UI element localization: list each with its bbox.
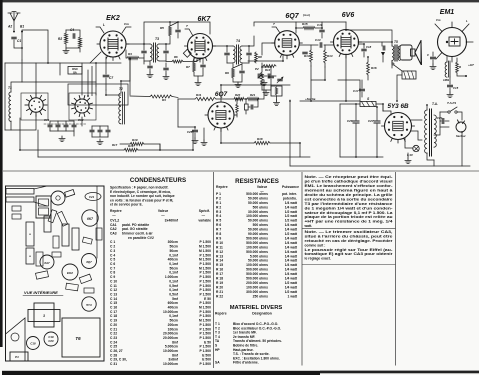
coil box T1 <box>26 222 34 246</box>
front-end frame wires <box>5 62 96 64</box>
svg-text:C17: C17 <box>353 89 359 93</box>
top scan edge <box>0 0 479 2</box>
capacitor C18 <box>362 49 366 51</box>
svg-text:500.000 ohms: 500.000 ohms <box>246 268 268 272</box>
svg-text:C 22: C 22 <box>110 332 117 336</box>
capacitor C4 <box>73 34 75 38</box>
svg-text:E 50: E 50 <box>204 297 211 301</box>
svg-text:SA: SA <box>215 361 220 365</box>
oval C21 <box>85 193 101 201</box>
svg-text:1/4 watt: 1/4 watt <box>285 250 298 254</box>
svg-text:1/4 watt: 1/4 watt <box>285 272 298 276</box>
svg-text:T6: T6 <box>75 336 81 341</box>
svg-text:—: — <box>161 213 165 217</box>
front-end top rail extension <box>96 62 121 64</box>
capacitor C7 <box>103 75 109 77</box>
EK2 grid caps <box>96 27 104 33</box>
svg-text:50.000 ohms: 50.000 ohms <box>248 228 268 232</box>
capacitor pair <box>258 74 260 78</box>
svg-text:R 15: R 15 <box>216 263 223 267</box>
capacitor C11 <box>201 65 205 67</box>
resistor R4 <box>127 56 139 59</box>
svg-text:R18: R18 <box>257 137 263 141</box>
svg-text:Note. — Le trimmer oscillateur: Note. — Le trimmer oscillateur CA3, <box>305 230 393 234</box>
svg-text:R 11: R 11 <box>216 245 223 249</box>
svg-text:90.000 ohms: 90.000 ohms <box>248 232 268 236</box>
switch below T5 <box>392 63 394 65</box>
svg-text:P 2: P 2 <box>216 196 221 200</box>
svg-text:0,1mf: 0,1mf <box>169 288 179 292</box>
svg-text:Filtre d'antenne.: Filtre d'antenne. <box>233 361 259 365</box>
speaker field coil <box>402 71 416 79</box>
svg-text:C 6: C 6 <box>110 262 115 266</box>
svg-text:HP: HP <box>215 348 220 352</box>
svg-text:400cm: 400cm <box>168 258 178 262</box>
svg-text:8A: 8A <box>73 71 77 75</box>
wafer contact dots <box>39 106 41 108</box>
contact diamond <box>183 49 191 57</box>
svg-text:1/4 watt: 1/4 watt <box>285 254 298 258</box>
svg-text:MATERIEL DIVERS: MATERIEL DIVERS <box>230 305 283 311</box>
note 2 bottom rule <box>302 264 396 266</box>
resistor R16 <box>367 62 370 75</box>
svg-text:R15: R15 <box>302 22 308 26</box>
svg-text:P 1.500: P 1.500 <box>200 271 212 275</box>
wires det <box>262 63 271 67</box>
padder <box>90 130 94 132</box>
ground under 6Q7 <box>203 128 205 140</box>
svg-text:R 22: R 22 <box>216 294 223 298</box>
screen bus <box>264 84 290 86</box>
wire plate box <box>338 80 360 101</box>
svg-text:6Q7: 6Q7 <box>86 260 92 264</box>
svg-text:1/2 watt: 1/2 watt <box>285 290 298 294</box>
svg-text:en parallèle CV2: en parallèle CV2 <box>128 236 154 240</box>
wires around 6Q7 AF <box>178 98 195 100</box>
EM1 target <box>449 37 460 46</box>
capacitor C21b <box>269 76 274 78</box>
svg-text:R 1: R 1 <box>216 201 221 205</box>
svg-text:3x8mf: 3x8mf <box>168 358 179 362</box>
svg-text:C25: C25 <box>187 130 193 134</box>
svg-text:1/4 watt: 1/4 watt <box>285 245 298 249</box>
svg-text:1/2 watt: 1/2 watt <box>285 219 298 223</box>
svg-text:CA3: CA3 <box>110 232 117 236</box>
tube 6A8 top <box>40 255 54 269</box>
svg-text:+HT par une résistance de 1 mé: +HT par une résistance de 1 még. 1/4 <box>305 220 393 224</box>
svg-text:Repère: Repère <box>216 185 228 189</box>
svg-text:T.A.: T.A. <box>432 102 438 106</box>
tube 6K7 top <box>82 210 98 226</box>
svg-text:3x460mf: 3x460mf <box>165 219 179 223</box>
resistor R21 <box>247 97 259 100</box>
resistor R2 <box>64 33 67 44</box>
svg-text:100.000 ohms: 100.000 ohms <box>246 285 268 289</box>
svg-text:1/4 watt: 1/4 watt <box>285 241 298 245</box>
svg-text:Note. — Ce récepteur peut être: Note. — Ce récepteur peut être équi- <box>305 175 393 179</box>
svg-text:R19: R19 <box>132 138 138 142</box>
svg-text:1/4 watt: 1/4 watt <box>285 277 298 281</box>
small rects row 2 <box>36 271 49 279</box>
svg-text:est connectée à la sortie du s: est connectée à la sortie du secondaire <box>305 197 393 201</box>
svg-text:500 ohms: 500 ohms <box>253 205 269 209</box>
svg-text:VUE INTÉRIEURE: VUE INTÉRIEURE <box>24 290 58 295</box>
svg-text:R12: R12 <box>265 68 271 72</box>
wires T3 <box>126 43 150 45</box>
svg-text:50.000 ohms: 50.000 ohms <box>248 219 268 223</box>
resistor R20 <box>234 97 244 100</box>
small parts row <box>48 210 57 223</box>
HT rail <box>144 22 170 44</box>
tube 5Y3GB <box>385 113 412 140</box>
pot box <box>271 86 282 96</box>
tube pin stubs <box>119 56 121 59</box>
svg-text:C 29, C 30,: C 29, C 30, <box>110 358 127 362</box>
svg-text:1 watt: 1 watt <box>288 294 298 298</box>
svg-text:100.000 ohms: 100.000 ohms <box>246 214 268 218</box>
svg-text:EK2: EK2 <box>67 271 73 275</box>
svg-text:mément au schéma figuré en hau: mément au schéma figuré en haut à <box>305 189 393 193</box>
capacitor C19 <box>193 130 198 132</box>
svg-text:C15: C15 <box>453 86 459 90</box>
antenna feed wires <box>22 30 48 63</box>
svg-text:6A7: 6A7 <box>44 261 50 265</box>
trimmer 4 <box>72 125 76 127</box>
svg-text:3: 3 <box>43 314 45 318</box>
detector bus <box>248 60 283 62</box>
ground bus <box>38 156 310 158</box>
resistor R24 <box>456 62 459 73</box>
resistor R6 <box>172 60 183 63</box>
svg-text:1MΩ: 1MΩ <box>443 78 450 82</box>
svg-text:R 8: R 8 <box>216 232 221 236</box>
capacitor C17 <box>360 89 365 91</box>
svg-text:comme suit :: comme suit : <box>305 243 326 247</box>
capacitor C16 <box>320 30 324 32</box>
svg-text:et de service pour E.: et de service pour E. <box>110 203 143 207</box>
capacitor can C18 <box>27 337 40 350</box>
svg-text:R2: R2 <box>58 37 62 41</box>
mains plug <box>456 122 466 132</box>
svg-text:R21: R21 <box>250 93 256 97</box>
svg-text:6K7: 6K7 <box>87 217 93 221</box>
svg-text:Le poussoir réglé sur Tour Eif: Le poussoir réglé sur Tour Eiffel (au- <box>305 248 393 252</box>
svg-text:200.000 ohms: 200.000 ohms <box>246 281 268 285</box>
svg-text:variable: variable <box>198 219 211 223</box>
loudspeaker HP <box>400 45 412 60</box>
resistor R13 <box>310 50 313 62</box>
svg-text:6V6: 6V6 <box>342 12 355 19</box>
AVC bus wire <box>20 149 124 151</box>
svg-text:—: — <box>112 213 116 217</box>
svg-text:T.A.P1: T.A.P1 <box>447 101 457 105</box>
svg-text:o: o <box>29 254 31 258</box>
resistor R7 <box>193 62 196 72</box>
tube 6V6 <box>334 30 359 55</box>
tube 6Q7 (AF) <box>208 102 234 128</box>
trimmer 2 <box>56 125 60 127</box>
resistor R19 <box>130 142 144 145</box>
B+ vertical <box>396 30 398 60</box>
wire EK2 cathode down <box>105 57 107 74</box>
svg-text:padd. PO stéatite: padd. PO stéatite <box>122 223 149 227</box>
svg-text:1/4 watt: 1/4 watt <box>285 237 298 241</box>
band switch wafer 2 <box>75 99 89 113</box>
P1 box <box>10 352 28 361</box>
capacitor C12 <box>225 53 229 55</box>
svg-text:le réglage exact.: le réglage exact. <box>305 257 331 261</box>
svg-text:R 18: R 18 <box>216 277 223 281</box>
svg-text:5.000 ohms: 5.000 ohms <box>250 254 268 258</box>
svg-text:Cm: Cm <box>436 18 441 22</box>
svg-text:R16: R16 <box>371 66 377 70</box>
resistor R3 <box>130 95 150 98</box>
svg-text:P 1.500: P 1.500 <box>200 288 212 292</box>
svg-text:P 1.500: P 1.500 <box>200 349 212 353</box>
bottom rail power <box>290 165 470 167</box>
svg-text:(m-n): (m-n) <box>303 13 310 17</box>
svg-text:500.000 ohms: 500.000 ohms <box>246 277 268 281</box>
svg-text:R8: R8 <box>258 55 262 59</box>
chassis extra parts <box>12 206 21 211</box>
tuning gang CV <box>36 196 51 218</box>
capacitor C8 <box>164 51 168 53</box>
svg-text:R 4: R 4 <box>216 214 221 218</box>
wire EK2 bottom to bus <box>106 90 121 95</box>
svg-text:o: o <box>29 232 31 236</box>
svg-text:P 1.500: P 1.500 <box>200 279 212 283</box>
svg-text:6Q7: 6Q7 <box>285 13 299 20</box>
svg-text:1/2 watt: 1/2 watt <box>285 210 298 214</box>
svg-text:Repère: Repère <box>215 312 227 316</box>
svg-text:5mf: 5mf <box>172 297 179 301</box>
oscillator block label <box>68 67 82 75</box>
capacitor C14 <box>320 43 322 47</box>
svg-text:R14: R14 <box>327 54 333 58</box>
wire mains rail <box>461 132 463 166</box>
resistor R1 <box>78 37 81 48</box>
svg-text:R 9: R 9 <box>216 237 221 241</box>
svg-text:1/4 watt: 1/4 watt <box>285 201 298 205</box>
extra grid lead <box>91 66 93 96</box>
svg-text:CONDENSATEURS: CONDENSATEURS <box>130 177 186 184</box>
svg-text:C 14: C 14 <box>110 297 117 301</box>
svg-text:1/4 watt: 1/4 watt <box>285 268 298 272</box>
resistor R11 <box>195 97 216 100</box>
coil under EM1 <box>445 62 447 77</box>
svg-text:M 1.500: M 1.500 <box>199 258 211 262</box>
svg-text:1/4 watt: 1/4 watt <box>285 285 298 289</box>
capacitor C near EM1 <box>431 57 436 59</box>
svg-text:P 1.500: P 1.500 <box>200 314 212 318</box>
svg-text:R17: R17 <box>112 143 118 147</box>
svg-text:C 31: C 31 <box>110 362 117 366</box>
svg-text:CA1: CA1 <box>110 223 117 227</box>
wire EK2 to front-end <box>90 52 101 63</box>
svg-text:400cm: 400cm <box>168 306 178 310</box>
svg-text:R 10: R 10 <box>216 241 223 245</box>
svg-text:B1: B1 <box>20 25 24 29</box>
svg-text:300cm: 300cm <box>168 240 178 244</box>
capacitor C26 electrolytic <box>353 121 359 123</box>
separator line schematic/tables <box>3 170 479 172</box>
svg-text:300.000 ohms: 300.000 ohms <box>246 290 268 294</box>
svg-text:5Y3: 5Y3 <box>86 303 92 307</box>
capacitor C1 <box>13 31 15 33</box>
svg-text:P 1.500: P 1.500 <box>200 240 212 244</box>
trimmer 3 <box>64 125 68 127</box>
resistor R14 <box>324 50 327 63</box>
IF can T3 top <box>65 190 75 198</box>
svg-text:30.000 ohms: 30.000 ohms <box>248 210 268 214</box>
chassis corner flap <box>6 318 26 361</box>
svg-text:50.000 ohms: 50.000 ohms <box>248 201 268 205</box>
svg-text:M 1.500: M 1.500 <box>199 306 211 310</box>
svg-text:T5: T5 <box>394 40 398 44</box>
svg-text:C14: C14 <box>315 38 321 42</box>
tube EK2 <box>100 31 126 57</box>
oscillator block outline <box>68 84 128 105</box>
svg-text:situé à l'arrière du châssis,: situé à l'arrière du châssis, peut être <box>305 234 393 238</box>
speaker input cap <box>383 46 385 50</box>
tube EM1 <box>438 28 467 57</box>
svg-text:0,1mf: 0,1mf <box>169 279 179 283</box>
trimmer arrow cap <box>278 79 282 81</box>
tube 5Y3 top <box>82 297 96 311</box>
svg-text:1/4 watt: 1/4 watt <box>285 259 298 263</box>
svg-text:100.000 ohms: 100.000 ohms <box>246 245 268 249</box>
capacitor C20 <box>251 105 253 109</box>
resistor boards <box>62 224 69 246</box>
TR box <box>62 318 100 357</box>
column rules <box>213 172 215 368</box>
svg-text:C1: C1 <box>17 39 21 43</box>
svg-text:Cm: Cm <box>124 22 129 26</box>
trimmer 1 <box>48 125 52 127</box>
svg-text:retouché en cas de déréglage.: retouché en cas de déréglage. Procéder <box>305 239 394 243</box>
svg-text:pot. inter.: pot. inter. <box>282 192 297 196</box>
svg-text:P2: P2 <box>255 67 259 71</box>
svg-text:R 14: R 14 <box>216 259 223 263</box>
svg-text:C 3: C 3 <box>110 249 115 253</box>
svg-text:10.000cm: 10.000cm <box>163 362 178 366</box>
svg-text:C20: C20 <box>48 339 54 343</box>
svg-text:C 5: C 5 <box>110 258 115 262</box>
volume pot P2 <box>261 72 264 85</box>
svg-text:10.000cm: 10.000cm <box>163 349 178 353</box>
svg-text:sateur de découplage 0,1 mf P: sateur de découplage 0,1 mf P 1.500. La <box>305 211 393 215</box>
wires T4 <box>213 45 233 47</box>
resistor R12 <box>263 65 276 68</box>
svg-text:R20: R20 <box>235 93 241 97</box>
svg-text:C 10: C 10 <box>110 279 117 283</box>
svg-text:Puissance: Puissance <box>282 185 299 189</box>
svg-text:1/2 watt: 1/2 watt <box>285 281 298 285</box>
svg-text:E 50: E 50 <box>204 340 211 344</box>
svg-text:pé d'un trèfle cathodique d'ac: pé d'un trèfle cathodique d'accord visue… <box>305 180 393 184</box>
svg-text:20.000cm: 20.000cm <box>163 332 178 336</box>
svg-text:1/4 watt: 1/4 watt <box>285 228 298 232</box>
svg-text:1/2 watt: 1/2 watt <box>285 214 298 218</box>
svg-text:Secteur: Secteur <box>456 134 467 138</box>
svg-text:EM1: EM1 <box>440 9 455 16</box>
6K7 grid cap <box>185 29 193 36</box>
svg-text:1/2 watt: 1/2 watt <box>285 232 298 236</box>
svg-text:C 18: C 18 <box>110 314 117 318</box>
tube 6Q7 (detector) <box>275 31 300 56</box>
svg-text:R 17: R 17 <box>216 272 223 276</box>
resistor R15 <box>303 26 315 29</box>
svg-text:100.000 ohms: 100.000 ohms <box>246 263 268 267</box>
svg-text:R 5: R 5 <box>216 219 221 223</box>
svg-text:1/4 watt: 1/4 watt <box>285 263 298 267</box>
svg-text:P 1.500: P 1.500 <box>200 323 212 327</box>
svg-text:R5: R5 <box>160 26 164 30</box>
tube top EK2 <box>51 191 65 205</box>
wires 5Y3 to TA <box>411 119 422 121</box>
svg-text:RESISTANCES: RESISTANCES <box>235 178 279 185</box>
padder <box>106 130 110 132</box>
wires R2/C4 <box>65 30 67 33</box>
svg-text:R7: R7 <box>186 65 190 69</box>
svg-text:5Y3 6B: 5Y3 6B <box>387 103 409 110</box>
svg-text:de 1 mégohm 1/4 watt et d'un c: de 1 mégohm 1/4 watt et d'un conden- <box>305 206 393 210</box>
svg-text:EK2: EK2 <box>106 15 120 22</box>
resistor R10 <box>124 148 138 151</box>
capacitor C22 <box>236 104 239 113</box>
capacitor CP1 <box>442 119 444 124</box>
tube 6K7 <box>188 34 213 59</box>
band switch wafer 1 <box>29 98 43 112</box>
svg-text:watt.: watt. <box>304 224 313 228</box>
svg-text:P 1: P 1 <box>216 192 221 196</box>
svg-text:C 8: C 8 <box>110 271 115 275</box>
svg-text:C7: C7 <box>109 76 113 80</box>
svg-text:C27: C27 <box>368 119 374 123</box>
capacitor C13 <box>247 53 251 55</box>
vertical line inner panel <box>96 186 98 258</box>
svg-text:500.000 ohms: 500.000 ohms <box>246 241 268 245</box>
svg-text:50.000 ohms: 50.000 ohms <box>248 259 268 263</box>
svg-text:R3: R3 <box>162 98 166 102</box>
svg-text:R 12: R 12 <box>216 250 223 254</box>
T3 secondary bypass caps <box>148 66 152 68</box>
svg-text:C21: C21 <box>89 195 95 199</box>
svg-text:C 20: C 20 <box>110 323 117 327</box>
power transformer block <box>34 303 54 327</box>
svg-text:A2: A2 <box>7 25 12 29</box>
small network below T4 <box>240 71 244 73</box>
svg-text:R 6: R 6 <box>216 223 221 227</box>
svg-text:R 20: R 20 <box>216 285 223 289</box>
bottom scan bar <box>2 371 320 375</box>
svg-text:R 7: R 7 <box>216 228 221 232</box>
tube 6Q7 top <box>82 254 97 269</box>
capacitor C15 <box>448 85 453 87</box>
svg-text:C18: C18 <box>366 45 372 49</box>
svg-text:C26: C26 <box>347 119 353 123</box>
svg-text:L: L <box>103 23 105 27</box>
tube EK2 top <box>62 264 78 280</box>
note separator <box>302 228 396 230</box>
svg-text:—: — <box>202 213 206 217</box>
svg-text:R 2: R 2 <box>216 205 221 209</box>
svg-text:500.000 ohms: 500.000 ohms <box>246 192 268 196</box>
svg-text:R 21: R 21 <box>216 290 223 294</box>
svg-text:P 1.500: P 1.500 <box>200 362 212 366</box>
svg-text:M 1.500: M 1.500 <box>199 249 211 253</box>
svg-text:tomatique E) agit sur CA3 pour: tomatique E) agit sur CA3 pour obtenir <box>305 252 394 256</box>
